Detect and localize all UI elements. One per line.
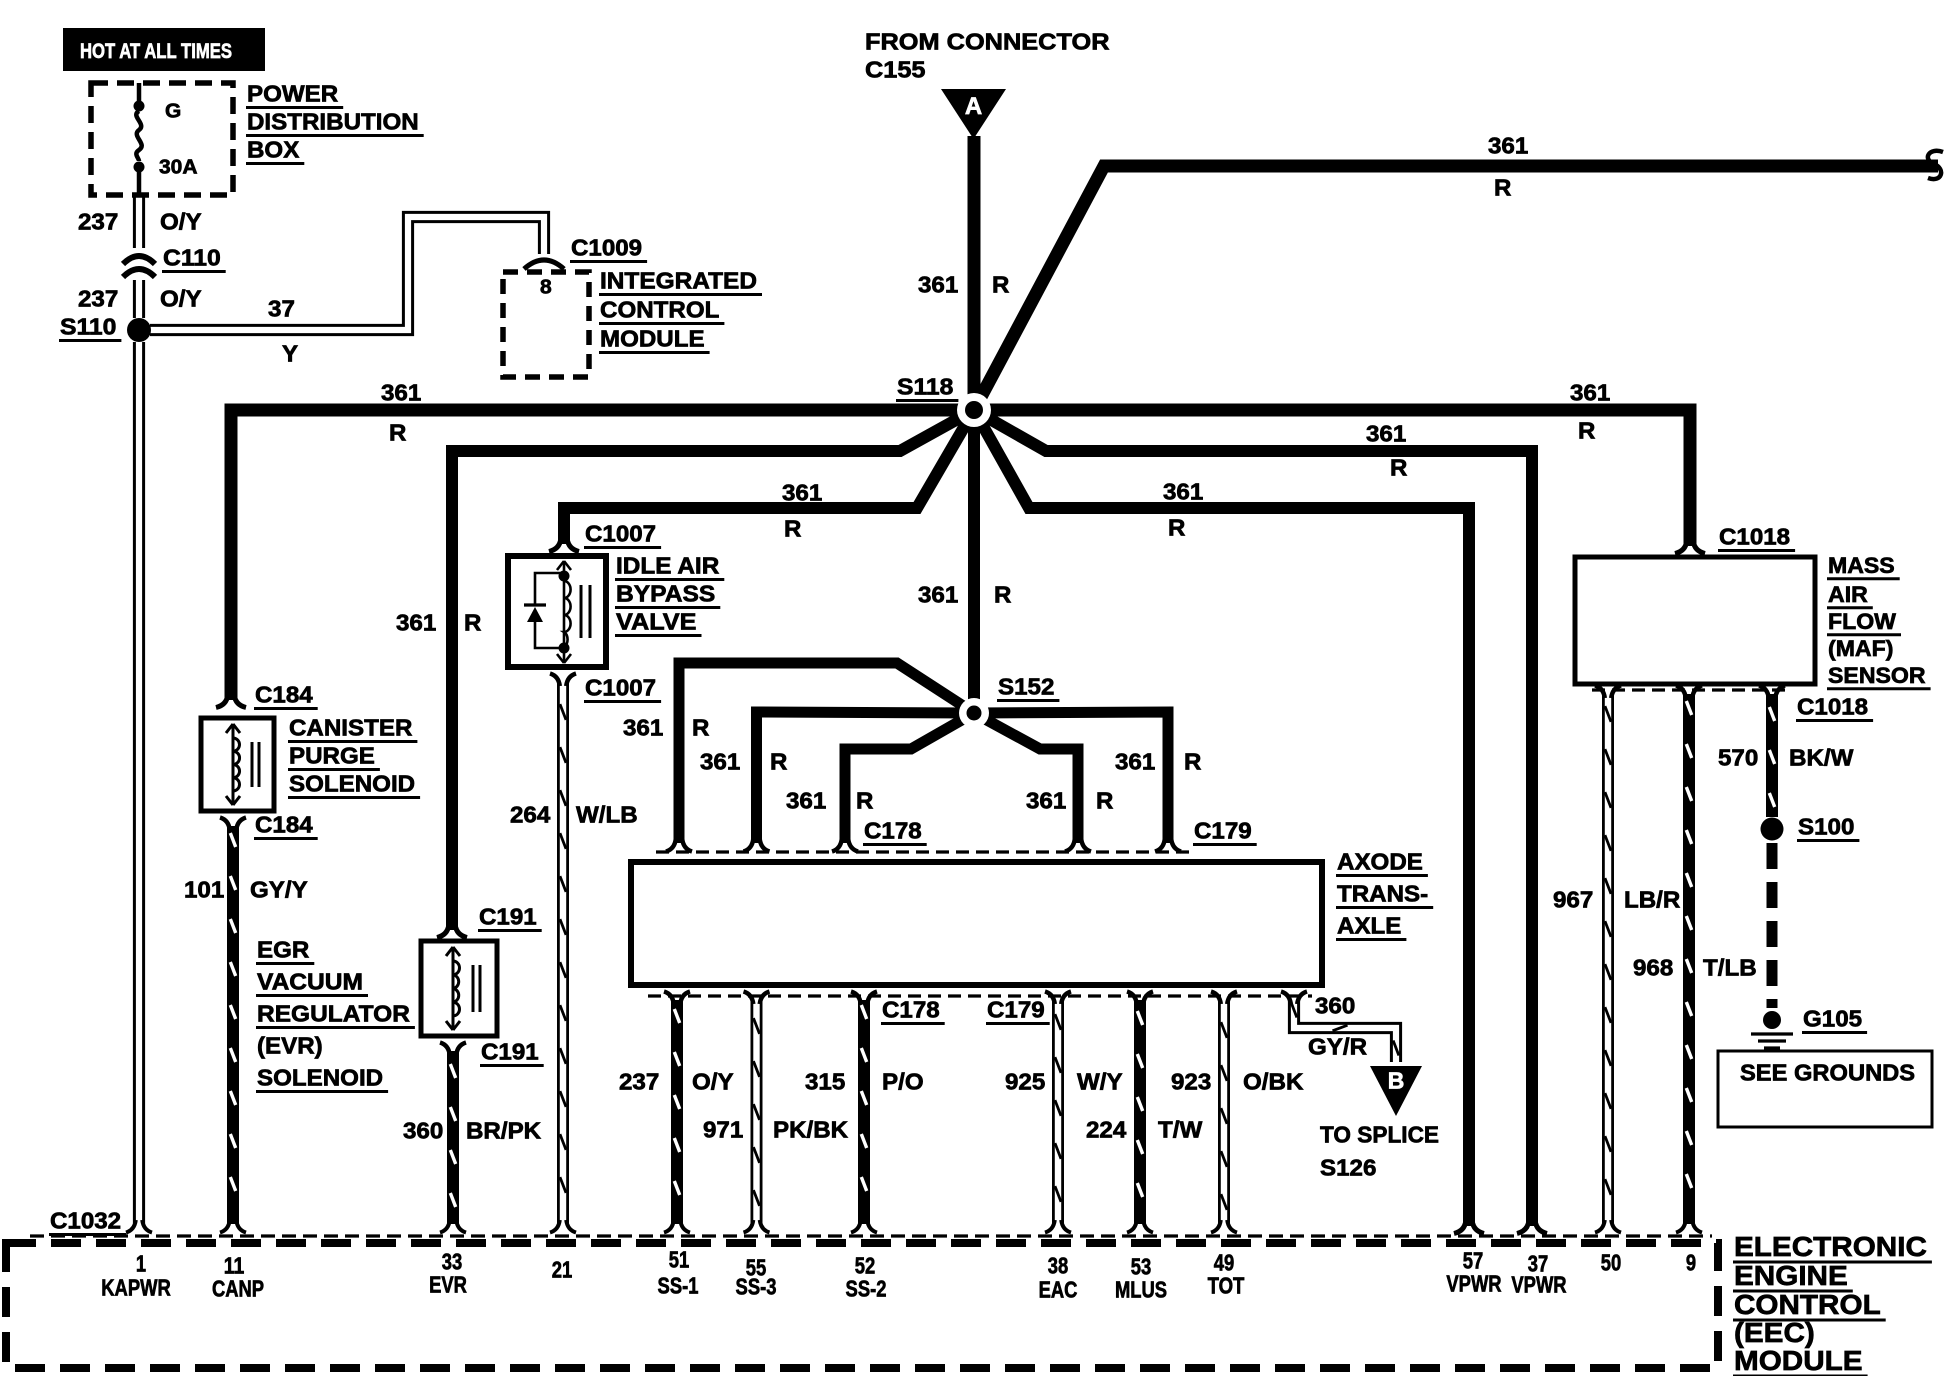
- svg-text:224: 224: [1086, 1117, 1127, 1143]
- svg-text:MLUS: MLUS: [1115, 1277, 1167, 1303]
- svg-text:P/O: P/O: [882, 1069, 924, 1095]
- svg-text:S126: S126: [1320, 1155, 1376, 1181]
- svg-text:971: 971: [703, 1117, 744, 1143]
- svg-text:R: R: [1184, 749, 1202, 775]
- svg-text:Y: Y: [282, 341, 298, 367]
- svg-text:361: 361: [623, 715, 664, 741]
- svg-text:W/Y: W/Y: [1077, 1069, 1123, 1095]
- svg-text:R: R: [1390, 455, 1408, 481]
- svg-text:R: R: [784, 516, 802, 542]
- svg-text:361: 361: [1026, 788, 1067, 814]
- svg-text:360: 360: [403, 1118, 443, 1144]
- svg-text:TO SPLICE: TO SPLICE: [1320, 1122, 1439, 1148]
- svg-text:DISTRIBUTION: DISTRIBUTION: [247, 109, 419, 135]
- svg-text:MASS: MASS: [1828, 553, 1895, 578]
- svg-text:W/LB: W/LB: [576, 802, 638, 828]
- svg-text:237: 237: [78, 209, 118, 235]
- svg-text:VPWR: VPWR: [1511, 1272, 1567, 1298]
- svg-text:264: 264: [510, 802, 551, 828]
- svg-text:R: R: [1494, 175, 1512, 201]
- svg-text:S100: S100: [1798, 814, 1854, 840]
- svg-text:R: R: [692, 715, 710, 741]
- svg-text:S152: S152: [998, 674, 1054, 700]
- svg-text:R: R: [994, 582, 1012, 608]
- svg-text:361: 361: [782, 480, 823, 506]
- svg-text:361: 361: [1488, 133, 1529, 159]
- svg-text:SENSOR: SENSOR: [1828, 663, 1926, 688]
- svg-text:361: 361: [918, 582, 959, 608]
- svg-text:C184: C184: [255, 682, 313, 708]
- svg-text:PK/BK: PK/BK: [773, 1117, 849, 1143]
- svg-text:HOT AT ALL TIMES: HOT AT ALL TIMES: [80, 40, 232, 63]
- svg-text:37: 37: [268, 296, 295, 322]
- svg-text:8: 8: [540, 276, 552, 298]
- svg-text:C1007: C1007: [585, 521, 656, 547]
- svg-text:EVR: EVR: [429, 1272, 467, 1298]
- svg-text:361: 361: [396, 610, 437, 636]
- svg-text:SOLENOID: SOLENOID: [257, 1065, 383, 1091]
- svg-text:21: 21: [552, 1257, 573, 1283]
- svg-text:EGR: EGR: [257, 937, 310, 963]
- svg-text:361: 361: [786, 788, 827, 814]
- svg-text:50: 50: [1601, 1250, 1622, 1276]
- svg-text:923: 923: [1171, 1069, 1211, 1095]
- svg-text:BOX: BOX: [247, 137, 300, 163]
- svg-text:TOT: TOT: [1208, 1273, 1245, 1299]
- svg-text:O/Y: O/Y: [160, 209, 202, 235]
- svg-text:GY/Y: GY/Y: [250, 877, 308, 903]
- svg-text:O/BK: O/BK: [1243, 1069, 1304, 1095]
- svg-text:C178: C178: [882, 997, 940, 1023]
- svg-text:MODULE: MODULE: [1734, 1345, 1863, 1376]
- svg-text:101: 101: [184, 877, 225, 903]
- svg-text:925: 925: [1005, 1069, 1046, 1095]
- svg-text:BK/W: BK/W: [1789, 745, 1854, 771]
- svg-text:SOLENOID: SOLENOID: [289, 771, 415, 797]
- svg-text:CONTROL: CONTROL: [600, 297, 719, 323]
- svg-text:ELECTRONIC: ELECTRONIC: [1734, 1231, 1927, 1262]
- svg-text:MODULE: MODULE: [600, 326, 705, 352]
- svg-text:SS-3: SS-3: [736, 1274, 777, 1300]
- svg-text:R: R: [389, 420, 407, 446]
- svg-text:C191: C191: [479, 904, 537, 930]
- svg-text:C110: C110: [163, 245, 221, 271]
- svg-text:R: R: [1096, 788, 1114, 814]
- svg-text:C155: C155: [865, 57, 926, 83]
- svg-text:CONTROL: CONTROL: [1734, 1289, 1881, 1320]
- svg-text:30A: 30A: [159, 156, 198, 178]
- svg-text:9: 9: [1686, 1250, 1696, 1276]
- svg-text:360: 360: [1315, 993, 1355, 1019]
- svg-text:38: 38: [1048, 1253, 1069, 1279]
- svg-text:INTEGRATED: INTEGRATED: [600, 268, 757, 294]
- svg-text:CANISTER: CANISTER: [289, 715, 413, 741]
- svg-text:POWER: POWER: [247, 81, 339, 107]
- svg-text:361: 361: [918, 272, 959, 298]
- svg-text:LB/R: LB/R: [1624, 887, 1681, 913]
- svg-text:C1018: C1018: [1797, 694, 1868, 720]
- svg-text:361: 361: [1163, 479, 1204, 505]
- svg-text:237: 237: [619, 1069, 659, 1095]
- svg-text:361: 361: [1366, 421, 1407, 447]
- svg-text:R: R: [770, 749, 788, 775]
- svg-text:AXODE: AXODE: [1337, 849, 1423, 875]
- svg-text:C179: C179: [1194, 818, 1252, 844]
- svg-text:(MAF): (MAF): [1828, 636, 1893, 661]
- svg-text:C1032: C1032: [50, 1208, 121, 1234]
- svg-text:361: 361: [1115, 749, 1156, 775]
- svg-text:PURGE: PURGE: [289, 743, 375, 769]
- svg-text:(EVR): (EVR): [257, 1033, 323, 1059]
- svg-text:B: B: [1388, 1068, 1405, 1094]
- svg-text:G: G: [165, 100, 181, 122]
- svg-text:C179: C179: [987, 997, 1045, 1023]
- svg-text:237: 237: [78, 286, 118, 312]
- svg-text:KAPWR: KAPWR: [101, 1275, 171, 1301]
- svg-text:S110: S110: [60, 314, 116, 340]
- svg-text:361: 361: [700, 749, 741, 775]
- svg-text:51: 51: [669, 1247, 690, 1273]
- svg-text:BYPASS: BYPASS: [616, 581, 715, 607]
- svg-text:(EEC): (EEC): [1734, 1317, 1815, 1348]
- svg-text:G105: G105: [1803, 1006, 1862, 1032]
- svg-text:SS-2: SS-2: [846, 1276, 887, 1302]
- svg-text:1: 1: [136, 1251, 146, 1277]
- svg-text:C178: C178: [864, 818, 922, 844]
- svg-text:315: 315: [805, 1069, 846, 1095]
- svg-text:R: R: [992, 272, 1010, 298]
- svg-text:C184: C184: [255, 812, 313, 838]
- svg-text:C1007: C1007: [585, 675, 656, 701]
- svg-text:361: 361: [381, 380, 422, 406]
- svg-text:BR/PK: BR/PK: [466, 1118, 542, 1144]
- svg-text:R: R: [464, 610, 482, 636]
- svg-text:R: R: [1578, 418, 1596, 444]
- svg-text:967: 967: [1553, 887, 1593, 913]
- svg-text:A: A: [965, 93, 982, 120]
- svg-text:AXLE: AXLE: [1337, 913, 1401, 939]
- svg-text:AIR: AIR: [1828, 582, 1868, 607]
- svg-text:C191: C191: [481, 1039, 539, 1065]
- svg-text:FROM CONNECTOR: FROM CONNECTOR: [865, 29, 1110, 55]
- svg-text:VALVE: VALVE: [616, 609, 697, 635]
- svg-text:EAC: EAC: [1039, 1277, 1078, 1303]
- svg-text:570: 570: [1718, 745, 1758, 771]
- svg-text:O/Y: O/Y: [692, 1069, 734, 1095]
- svg-text:VACUUM: VACUUM: [257, 969, 363, 995]
- svg-text:SS-1: SS-1: [658, 1273, 699, 1299]
- svg-text:C1009: C1009: [571, 235, 642, 261]
- svg-text:R: R: [1168, 515, 1186, 541]
- svg-text:SEE GROUNDS: SEE GROUNDS: [1740, 1060, 1915, 1086]
- svg-text:361: 361: [1570, 380, 1611, 406]
- svg-text:IDLE AIR: IDLE AIR: [616, 553, 720, 579]
- svg-text:GY/R: GY/R: [1308, 1034, 1367, 1060]
- svg-text:T/LB: T/LB: [1703, 955, 1757, 981]
- svg-text:TRANS-: TRANS-: [1337, 881, 1428, 907]
- svg-text:S118: S118: [897, 374, 954, 400]
- svg-text:REGULATOR: REGULATOR: [257, 1001, 410, 1027]
- svg-text:T/W: T/W: [1158, 1117, 1203, 1143]
- svg-text:ENGINE: ENGINE: [1734, 1260, 1848, 1291]
- svg-text:O/Y: O/Y: [160, 286, 202, 312]
- svg-text:R: R: [856, 788, 874, 814]
- svg-text:FLOW: FLOW: [1828, 609, 1896, 634]
- svg-text:CANP: CANP: [212, 1276, 264, 1302]
- svg-text:968: 968: [1633, 955, 1674, 981]
- svg-text:C1018: C1018: [1719, 524, 1790, 550]
- svg-text:VPWR: VPWR: [1446, 1271, 1502, 1297]
